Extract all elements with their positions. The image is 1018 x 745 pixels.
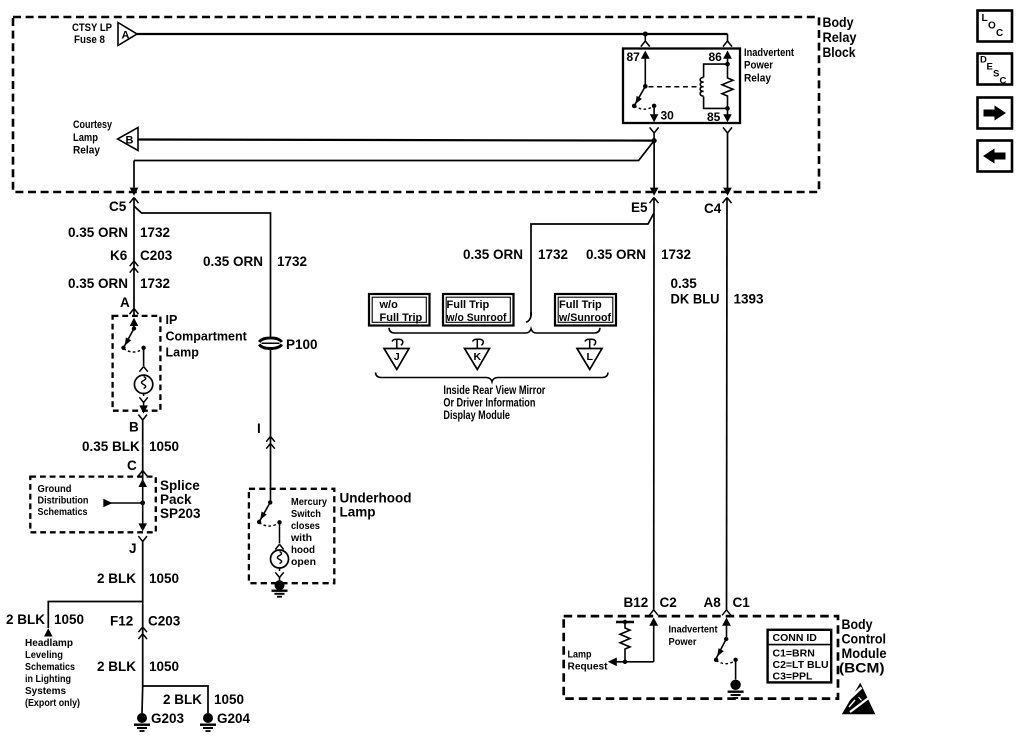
triangle connector A <box>118 23 137 46</box>
connector caret pin 86 <box>723 41 732 47</box>
wire E5 to BCM B12 <box>653 198 655 610</box>
button DESC <box>978 54 1013 87</box>
svg-text:0.35 BLK: 0.35 BLK <box>82 439 140 454</box>
relay resistor R1 <box>722 64 733 108</box>
svg-text:1050: 1050 <box>54 612 84 627</box>
branch wire to G204 <box>143 686 208 713</box>
svg-text:hood: hood <box>291 544 315 556</box>
relay U: Inadvertent Power Relay box <box>623 49 740 124</box>
BCM switch armature <box>716 639 726 659</box>
relay switch armature <box>634 86 645 106</box>
svg-text:C2: C2 <box>660 595 677 610</box>
button next arrow <box>978 98 1013 129</box>
svg-text:Leveling: Leveling <box>25 649 63 661</box>
BCM lamp request entry arrow <box>649 618 658 662</box>
ground G204 <box>200 711 251 731</box>
wire stub to pin 87 <box>644 34 646 41</box>
svg-text:Schematics: Schematics <box>38 506 88 518</box>
module pin triangle K <box>465 339 490 369</box>
svg-text:1732: 1732 <box>277 254 307 269</box>
svg-text:F12: F12 <box>110 614 133 629</box>
svg-text:IP: IP <box>166 313 178 327</box>
svg-text:Schematics: Schematics <box>25 661 75 673</box>
label IP Compartment Lamp <box>166 313 248 360</box>
pin 86 <box>709 50 732 66</box>
svg-text:30: 30 <box>661 109 675 123</box>
underhood lamp bulb <box>271 550 289 568</box>
top brace <box>389 328 600 333</box>
connector B12 C2 <box>624 595 677 615</box>
connector K6 C203 <box>110 248 173 273</box>
svg-text:L: L <box>982 13 988 24</box>
ground inside BCM <box>728 680 744 698</box>
mercury switch armature <box>259 502 270 522</box>
label Ground Distribution Schematics <box>38 483 89 518</box>
svg-text:1732: 1732 <box>538 247 568 262</box>
svg-text:Mercury: Mercury <box>291 496 327 508</box>
node junction E5 feed <box>652 133 657 143</box>
svg-text:w/o Sunroof: w/o Sunroof <box>446 312 507 324</box>
label Underhood Lamp <box>340 491 412 520</box>
svg-text:Pack: Pack <box>160 492 192 507</box>
Body Control Module dashed box <box>564 616 838 699</box>
connector C into splice pack <box>127 458 147 476</box>
relay coil link dashed <box>649 86 699 88</box>
CONN ID table <box>768 630 832 683</box>
label 2 BLK 1050 lower <box>97 659 179 674</box>
svg-text:Distribution: Distribution <box>38 495 89 507</box>
connector A into IP lamp <box>120 295 139 314</box>
triangle connector B <box>118 128 138 151</box>
label 0.35 ORN 1732 upper <box>68 225 170 240</box>
ground below underhood lamp <box>272 580 288 596</box>
label Headlamp Leveling Schematics <box>25 637 80 709</box>
ground G203 <box>134 711 185 731</box>
label 0.35 ORN 1732 mirror column <box>463 247 568 262</box>
connector caret below pin 85 <box>723 127 732 133</box>
connector A8 C1 <box>704 595 751 615</box>
junction node on feed wire <box>643 32 648 37</box>
svg-text:1732: 1732 <box>661 247 691 262</box>
IP switch contact node <box>141 346 145 350</box>
mercury switch dashed throw arc <box>259 523 279 526</box>
BCM pull-up resistor <box>616 620 634 664</box>
svg-text:SP203: SP203 <box>160 506 201 521</box>
wire contact to lamp <box>139 348 147 372</box>
svg-text:Lamp: Lamp <box>568 649 592 661</box>
BCM switch fixed node <box>724 637 728 641</box>
wire E5 drop <box>650 141 659 196</box>
svg-text:Relay: Relay <box>744 73 772 85</box>
branch wire to headlamp leveling <box>48 602 142 629</box>
IP switch armature <box>124 329 135 348</box>
label Splice Pack SP203 <box>160 478 201 521</box>
svg-text:A: A <box>122 30 130 42</box>
headlamp leveling reference arrow <box>44 628 53 636</box>
svg-text:Courtesy: Courtesy <box>73 119 113 131</box>
label 2 BLK 1050 branch <box>6 612 84 627</box>
svg-text:O: O <box>988 21 996 32</box>
svg-text:C2=LT BLU: C2=LT BLU <box>773 659 829 671</box>
pin 87 <box>627 50 650 86</box>
label Body Relay Block <box>823 14 857 60</box>
svg-text:Relay: Relay <box>823 29 857 45</box>
svg-text:Inside Rear View Mirror: Inside Rear View Mirror <box>443 385 545 397</box>
svg-text:A: A <box>120 295 130 310</box>
svg-text:Full Trip: Full Trip <box>380 312 423 324</box>
svg-text:C1: C1 <box>733 595 751 610</box>
bottom brace <box>376 373 609 382</box>
IP switch fixed node <box>132 326 136 330</box>
svg-text:1393: 1393 <box>734 292 765 307</box>
svg-text:1732: 1732 <box>140 276 170 291</box>
svg-text:Lamp: Lamp <box>340 505 376 520</box>
ground distribution reference arrow <box>103 499 142 508</box>
svg-text:Or Driver Information: Or Driver Information <box>443 398 535 410</box>
svg-text:CONN ID: CONN ID <box>773 632 818 644</box>
svg-text:C203: C203 <box>140 248 173 263</box>
splice node SP203 <box>140 500 145 505</box>
svg-text:Ground: Ground <box>38 483 72 495</box>
label 2 BLK 1050 G204 <box>163 692 244 707</box>
Body Relay Block dashed box <box>13 17 819 192</box>
wire J to F12 <box>142 542 144 628</box>
svg-text:in Lighting: in Lighting <box>25 673 71 685</box>
svg-text:J: J <box>129 541 137 556</box>
relay coil L1 <box>700 77 703 96</box>
svg-text:2 BLK: 2 BLK <box>6 612 45 627</box>
IP lamp bulb <box>134 375 152 393</box>
svg-text:G204: G204 <box>217 711 251 726</box>
svg-text:open: open <box>291 556 316 568</box>
svg-text:C: C <box>127 458 137 473</box>
relay coil branch wires <box>704 64 728 108</box>
relay contact node pin 30 <box>652 104 657 109</box>
svg-text:Display Module: Display Module <box>443 410 510 422</box>
svg-text:w/Sunroof: w/Sunroof <box>558 312 611 324</box>
svg-text:J: J <box>394 351 400 363</box>
svg-text:S: S <box>993 69 999 80</box>
svg-text:Relay: Relay <box>73 145 101 157</box>
wire C4 drop <box>723 133 732 196</box>
svg-text:C: C <box>996 28 1003 39</box>
svg-text:closes: closes <box>291 520 320 532</box>
svg-text:C4: C4 <box>704 201 722 216</box>
svg-text:2 BLK: 2 BLK <box>97 571 136 586</box>
svg-text:(Export only): (Export only) <box>25 697 80 709</box>
option box Full Trip w/Sunroof <box>555 294 616 326</box>
mercury switch pivot node <box>257 520 261 524</box>
label Inside Rear View Mirror module <box>443 385 545 422</box>
svg-text:DK BLU: DK BLU <box>671 292 720 307</box>
svg-text:1050: 1050 <box>214 692 244 707</box>
label 2 BLK 1050 upper <box>97 571 179 586</box>
IP switch pivot node <box>121 346 125 350</box>
svg-text:w/o: w/o <box>379 299 399 311</box>
wire contact to BCM ground <box>735 660 737 680</box>
label Mercury Switch closes with hood open <box>290 496 327 568</box>
svg-text:C3=PPL: C3=PPL <box>773 671 814 683</box>
wire B to junction <box>138 140 654 141</box>
splice pack wire exit arrow <box>138 503 147 532</box>
svg-text:1732: 1732 <box>140 225 170 240</box>
wire lamp to box exit <box>139 394 148 414</box>
svg-text:G203: G203 <box>151 711 185 726</box>
svg-text:A8: A8 <box>704 595 722 610</box>
label Inadvertent Power Relay <box>744 47 794 85</box>
wire stub to pin 86 <box>727 34 729 41</box>
wire F12 to grounds <box>141 627 144 713</box>
label 0.35 ORN 1732 lower <box>68 276 170 291</box>
connector J below splice pack <box>129 536 147 556</box>
svg-text:Inadvertent: Inadvertent <box>669 624 718 636</box>
svg-text:Headlamp: Headlamp <box>25 637 73 649</box>
wire contact to underhood bulb <box>275 522 283 549</box>
svg-text:P100: P100 <box>286 337 318 352</box>
wire bulb to ground <box>275 568 283 581</box>
mercury switch fixed node <box>268 489 272 505</box>
BCM switch pivot node <box>714 658 718 662</box>
svg-text:Body: Body <box>823 14 854 30</box>
svg-text:Lamp: Lamp <box>73 132 98 144</box>
svg-text:CTSY LP: CTSY LP <box>72 22 112 34</box>
wire feed from A to relay <box>137 33 728 35</box>
connector I <box>257 421 275 449</box>
module pin triangle L <box>577 339 602 369</box>
svg-text:Block: Block <box>823 44 856 60</box>
svg-text:Fuse 8: Fuse 8 <box>74 34 105 46</box>
svg-text:(BCM): (BCM) <box>839 659 885 675</box>
module pin triangle J <box>384 339 409 369</box>
svg-text:0.35 ORN: 0.35 ORN <box>203 254 263 269</box>
svg-text:I: I <box>257 421 261 436</box>
svg-text:C1=BRN: C1=BRN <box>773 648 815 660</box>
svg-text:C: C <box>1000 76 1007 87</box>
connector caret pin 87 <box>641 41 650 47</box>
svg-text:Full Trip: Full Trip <box>447 299 490 311</box>
svg-text:0.35 ORN: 0.35 ORN <box>68 225 128 240</box>
label Courtesy Lamp Relay <box>73 119 113 157</box>
label 0.35 BLK 1050 <box>82 439 179 454</box>
arrow C5 into border <box>130 188 139 196</box>
connector C5 <box>109 198 139 215</box>
connector E5 <box>631 198 659 216</box>
svg-text:Full Trip: Full Trip <box>559 299 602 311</box>
svg-text:Power: Power <box>669 636 697 648</box>
connector C4 <box>704 198 732 217</box>
BCM switch contact node <box>733 658 737 662</box>
BCM inadvertent power entry arrow <box>722 618 731 640</box>
svg-text:K: K <box>474 351 482 363</box>
wire P100 to underhood lamp <box>270 349 272 489</box>
svg-text:B: B <box>129 420 139 435</box>
svg-text:C203: C203 <box>148 614 181 629</box>
label Inadvertent Power BCM <box>669 624 718 649</box>
svg-text:Switch: Switch <box>291 508 321 520</box>
svg-text:Systems: Systems <box>25 685 66 697</box>
svg-text:Inadvertent: Inadvertent <box>744 47 794 59</box>
svg-text:86: 86 <box>709 50 723 64</box>
svg-text:K6: K6 <box>110 248 128 263</box>
svg-text:with: with <box>290 532 312 544</box>
svg-text:Request: Request <box>568 661 608 673</box>
IP lamp entry arrow <box>130 318 139 329</box>
Underhood Lamp dashed box <box>249 489 334 583</box>
svg-text:B12: B12 <box>624 595 649 610</box>
svg-text:0.35: 0.35 <box>671 276 698 291</box>
grommet P100 <box>259 337 317 352</box>
label 0.35 ORN 1732 P100 column <box>203 254 307 269</box>
relay dashed throw arc <box>634 106 654 109</box>
ESD sensitivity symbol <box>842 683 876 715</box>
branch wire E5 to mirror module <box>526 214 654 323</box>
pin 85 wire with arrow <box>707 106 732 124</box>
fuse reference CTSY LP Fuse 8 <box>72 22 112 46</box>
IP Compartment Lamp dashed box <box>113 316 161 411</box>
svg-text:1050: 1050 <box>149 571 179 586</box>
svg-text:Module: Module <box>842 645 887 661</box>
svg-text:0.35 ORN: 0.35 ORN <box>463 247 523 262</box>
svg-text:87: 87 <box>627 50 641 64</box>
relay pivot contact node <box>632 104 637 109</box>
label 0.35 ORN 1732 E5 column <box>586 247 691 262</box>
wire C5 to IP lamp <box>133 198 135 316</box>
svg-text:C5: C5 <box>109 199 127 214</box>
svg-text:E: E <box>987 62 993 73</box>
svg-text:2 BLK: 2 BLK <box>163 692 202 707</box>
connector caret below pin 30 <box>650 127 659 133</box>
label Lamp Request <box>568 649 608 673</box>
BCM switch dashed throw arc <box>716 660 736 663</box>
option box w/o Full Trip <box>369 294 430 326</box>
wire C4 to BCM A8 <box>726 198 729 610</box>
wire C5 feed run <box>134 141 654 189</box>
label 0.35 DK BLU 1393 C4 column <box>671 276 765 307</box>
branch wire C5 to P100 <box>134 206 271 338</box>
svg-text:1050: 1050 <box>149 659 179 674</box>
svg-text:1050: 1050 <box>149 439 179 454</box>
svg-text:L: L <box>586 351 593 363</box>
connector F12 C203 <box>110 614 181 640</box>
button LOC <box>978 11 1013 42</box>
svg-text:0.35 ORN: 0.35 ORN <box>68 276 128 291</box>
BCM lamp request run to resistor <box>608 658 654 667</box>
svg-text:Underhood: Underhood <box>340 491 412 506</box>
svg-text:Compartment: Compartment <box>166 330 248 344</box>
svg-text:Lamp: Lamp <box>166 346 200 360</box>
svg-text:Power: Power <box>744 60 774 72</box>
svg-text:Splice: Splice <box>160 478 200 493</box>
svg-text:85: 85 <box>707 110 721 124</box>
svg-text:0.35 ORN: 0.35 ORN <box>586 247 646 262</box>
option box Full Trip w/o Sunroof <box>443 294 514 326</box>
splice pack wire entry arrow <box>138 477 147 503</box>
Ground Distribution Schematics dashed box <box>30 477 156 533</box>
svg-text:E5: E5 <box>631 200 648 215</box>
button back arrow <box>978 141 1013 172</box>
svg-text:B: B <box>126 135 134 147</box>
IP switch dashed throw arc <box>124 349 144 353</box>
svg-text:2 BLK: 2 BLK <box>97 659 136 674</box>
mercury switch contact node <box>277 520 281 524</box>
label Body Control Module BCM <box>839 616 887 676</box>
wire B to C <box>142 420 144 477</box>
relay switch common node <box>643 84 648 89</box>
pin 30 wire with arrow <box>650 106 674 123</box>
connector B below IP lamp <box>129 415 147 435</box>
